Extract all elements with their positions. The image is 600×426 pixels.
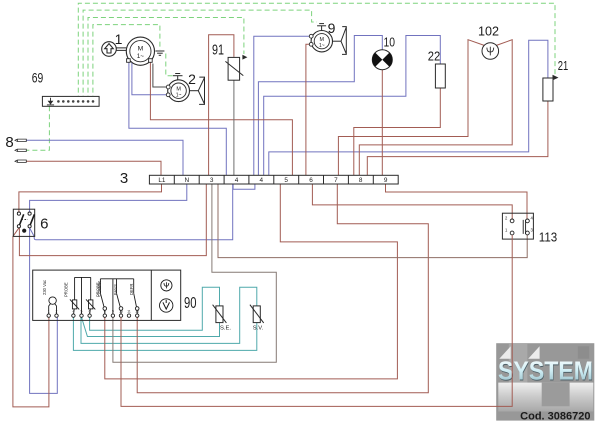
svg-text:102: 102 [478, 24, 499, 39]
ground motor 1 [155, 51, 164, 55]
wire motor 1 / motor 2 phase to strip 5 [150, 62, 292, 175]
svg-text:M: M [138, 45, 144, 52]
svg-text:S.E.: S.E. [220, 325, 231, 331]
motor 9 terminals [309, 34, 313, 38]
wire jumper strip 4a to 4b [233, 184, 255, 189]
ground motor 9 [317, 24, 326, 31]
svg-text:230 Vac: 230 Vac [42, 280, 47, 295]
svg-text:7: 7 [334, 177, 338, 184]
sensor S.E. [216, 306, 223, 323]
resistor 21 [543, 78, 553, 101]
svg-text:8: 8 [359, 177, 363, 184]
svg-text:9: 9 [328, 20, 336, 36]
sensor 91 [228, 57, 240, 80]
wire switch 6 pole 1 to controller t1 [13, 228, 49, 407]
svg-text:11: 11 [127, 310, 131, 314]
svg-text:1: 1 [115, 31, 123, 47]
wire resistor 22 to strip 8 [354, 88, 441, 175]
wire switch 6 pole 2 to strip 4a [30, 184, 233, 240]
wire switch 6 pole 1 to strip 3 [19, 184, 206, 256]
probe B [89, 300, 93, 309]
wire strip 9 to relay 113 t4 [386, 184, 528, 219]
supply terminal spades [15, 139, 26, 162]
wire valve 10 neutral to strip 4b [258, 36, 382, 176]
motor M9 [311, 31, 332, 52]
wire strip 5 to controller t8 [105, 184, 398, 379]
controller terminals [47, 314, 139, 317]
wire strip 3 to controller t9 (gray) [113, 184, 276, 362]
svg-text:6: 6 [309, 177, 313, 184]
coupling link [116, 48, 126, 51]
wire strip 6 to relay 113 t2 [312, 184, 512, 219]
wire motor 9 phase to strip 6 [306, 44, 309, 175]
switch 6 [13, 209, 34, 236]
ground symbol in 69 [47, 98, 54, 105]
wire motor 1 neutral to strip 4a [129, 62, 226, 175]
svg-text:DEFR: DEFR [129, 284, 134, 295]
relay 113 [502, 213, 533, 239]
ground motor 2 [173, 74, 183, 81]
lamp 102 [482, 43, 499, 60]
wire motor 2 top terminal link (dark) [153, 64, 167, 88]
wire ground strip 69 to supply earth spade [27, 106, 50, 150]
wire ground bus to motor 9 ground [83, 10, 317, 101]
svg-text:S.V.: S.V. [253, 325, 264, 331]
wire controller t6 to S.E. top [90, 287, 220, 330]
svg-text:3: 3 [120, 170, 128, 187]
svg-text:FANS: FANS [113, 284, 118, 295]
wire controller t5 to S.V. top [81, 287, 257, 343]
svg-text:3: 3 [210, 177, 214, 184]
svg-text:8: 8 [5, 134, 13, 151]
wire sensor 91 bottom to strip 4a (dark gray) [233, 80, 235, 175]
svg-text:9: 9 [384, 177, 388, 184]
wire lamp 102 right to strip 8 [359, 40, 512, 176]
svg-text:2: 2 [188, 71, 196, 87]
svg-text:10: 10 [384, 36, 396, 50]
wire switch 6 pole 2 to controller t2 [30, 228, 58, 394]
wire resistor 22 neutral to strip 4b [264, 36, 441, 176]
probe bus + t5 lead [75, 277, 91, 314]
arrow at 21 ground [553, 75, 559, 81]
wire ground bus to sensor 91 arrow [88, 18, 244, 101]
motor 2 terminals [166, 85, 170, 89]
svg-text:1~: 1~ [137, 53, 145, 60]
valve 10 [372, 50, 392, 70]
wire strip N to switch 6 pole 2 top [30, 184, 187, 212]
wire ground bus to resistor 21 arrow [78, 3, 555, 100]
indicator circles [161, 280, 172, 291]
sensor S.V. [253, 306, 260, 323]
230V supply symbol [49, 297, 56, 304]
wire strip 7 to controller t12 [137, 184, 428, 393]
svg-text:113: 113 [539, 229, 558, 244]
svg-text:21: 21 [558, 59, 569, 73]
earth terminal strip 69 [42, 96, 99, 106]
wire resistor 21 to strip 8 [367, 101, 548, 175]
resistor 22 [435, 64, 445, 88]
svg-text:Cod. 3086720: Cod. 3086720 [520, 410, 590, 422]
motor 1 terminals [127, 59, 131, 63]
svg-text:COMPR: COMPR [97, 281, 102, 297]
logo box [496, 343, 594, 422]
wire controller t5 to S.E. bottom [82, 317, 220, 336]
wire motor 9 neutral to strip 4b [254, 36, 309, 175]
svg-text:N: N [184, 177, 189, 184]
svg-text:5: 5 [284, 177, 288, 184]
svg-text:L1: L1 [158, 177, 166, 184]
wire sensor 91 to strip 3 [209, 35, 234, 176]
svg-text:6: 6 [40, 216, 48, 233]
wire supply line spade to strip L1 [27, 161, 162, 175]
wire lamp 102 left to strip 7 [338, 40, 484, 176]
wire controller t10 to relay 113 t1 (over logo) [121, 235, 512, 406]
fan 9 [333, 40, 342, 42]
fan 2 [190, 90, 199, 92]
svg-text:69: 69 [32, 70, 44, 85]
svg-text:22: 22 [428, 48, 441, 63]
svg-text:90: 90 [184, 295, 197, 312]
probe A [72, 300, 76, 309]
terminal strip 3 [149, 175, 398, 184]
motor M2 [168, 80, 190, 102]
wire resistor 21 neutral to strip 4b [269, 40, 548, 175]
svg-text:4: 4 [235, 177, 239, 184]
wire controller t4 to S.V. bottom [73, 317, 256, 350]
svg-text:4: 4 [260, 177, 264, 184]
switch contacts COMPR FANS DEFR [100, 279, 133, 314]
svg-text:PROBE: PROBE [64, 282, 69, 297]
motor M1 [126, 37, 154, 65]
svg-text:1~: 1~ [176, 92, 182, 98]
wire motor 1 to motor 2 neutral [132, 62, 167, 95]
arrow at 91 ground [242, 55, 247, 60]
svg-text:1~: 1~ [319, 43, 325, 49]
wire strip 3 to relay 113 t3 [218, 184, 527, 258]
svg-text:91: 91 [212, 42, 224, 59]
wire valve 10 to strip 9 [381, 70, 383, 176]
wire supply neutral spade to strip N [27, 140, 184, 175]
pump symbol [102, 42, 117, 57]
wire ground bus to motor 1 ground [93, 25, 160, 101]
controller 90 box [33, 270, 181, 320]
wire strip L1 to switch 6 pole 1 top [19, 184, 162, 212]
wire motor 1 ground to motor 2 ground [166, 54, 173, 76]
